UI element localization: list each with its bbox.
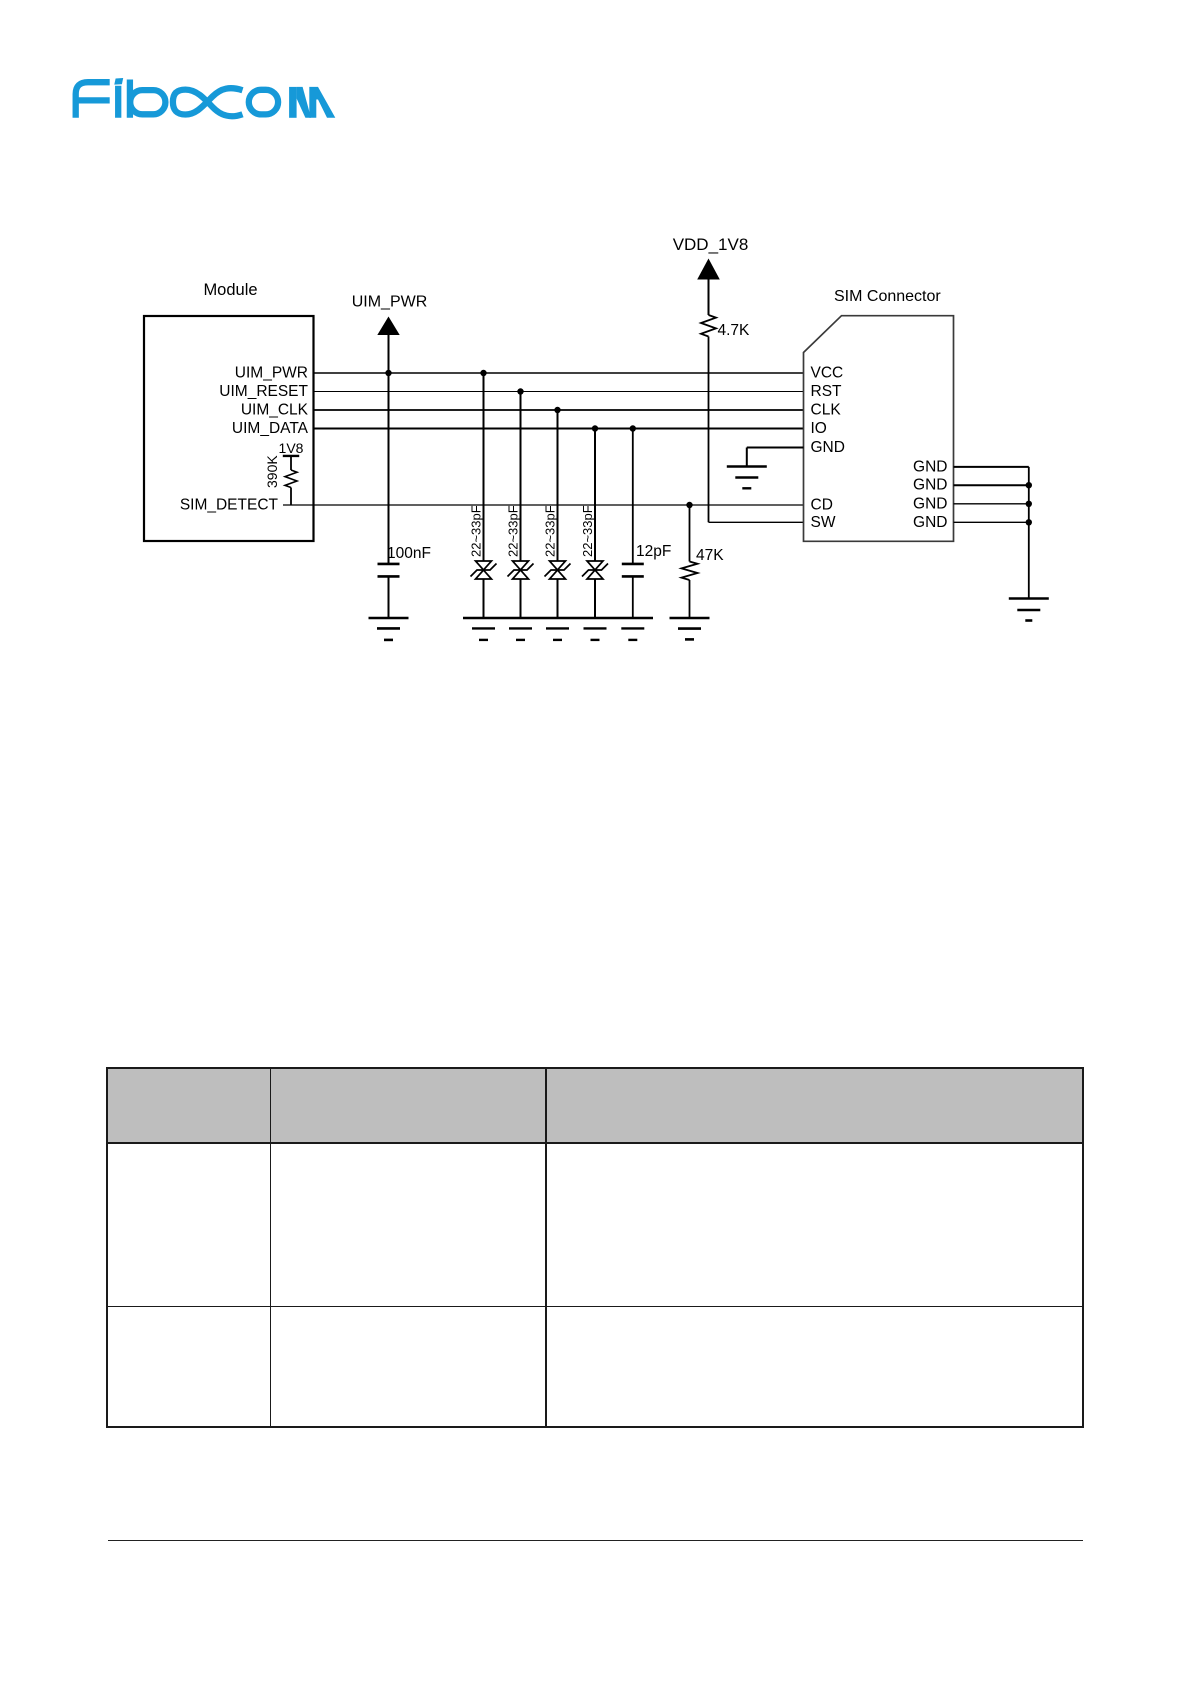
- node GND3 junction: [1026, 501, 1032, 507]
- ESD diode D1: [469, 370, 497, 618]
- svg-text:22~33pF: 22~33pF: [543, 505, 558, 557]
- table: [106, 1067, 1084, 1428]
- wire UIM_PWR vertical: [388, 335, 390, 564]
- ESD diode D4: [580, 425, 608, 618]
- wire GND3: [954, 503, 1029, 505]
- svg-text:4.7K: 4.7K: [718, 322, 751, 339]
- svg-text:VCC: VCC: [811, 365, 844, 382]
- svg-text:UIM_RESET: UIM_RESET: [219, 383, 308, 400]
- logo letter m: [289, 87, 297, 118]
- node GND2 junction: [1026, 482, 1032, 488]
- logo letter F: [76, 82, 110, 118]
- resistor R2 390K pull-up: [264, 440, 304, 505]
- svg-text:CLK: CLK: [811, 402, 842, 419]
- wire UIM_CLK: [314, 409, 804, 411]
- SIM connector box: [804, 316, 954, 542]
- svg-text:RST: RST: [811, 383, 843, 400]
- logo letter b: [127, 80, 133, 118]
- svg-text:GND: GND: [811, 439, 845, 456]
- logo letter o: [249, 90, 278, 115]
- ground G2: [472, 628, 644, 640]
- ground G3: [670, 618, 710, 639]
- svg-text:UIM_CLK: UIM_CLK: [241, 402, 309, 419]
- wire UIM_PWR: [314, 372, 804, 374]
- wire 4.7K to SW: [708, 337, 710, 523]
- resistor R1 47K: [682, 502, 725, 618]
- power arrow VDD_1V8: [697, 259, 720, 280]
- ESD diode D3: [543, 407, 571, 618]
- capacitor C2 12pF: [622, 425, 672, 618]
- svg-text:390K: 390K: [264, 455, 280, 488]
- svg-text:SW: SW: [811, 514, 836, 531]
- Fibocom logo: [0, 0, 400, 140]
- ground G5: [1009, 599, 1049, 621]
- capacitor C1 100nF: [378, 563, 400, 566]
- svg-text:SIM Connector: SIM Connector: [834, 288, 941, 305]
- wire C1 to ground: [388, 576, 390, 618]
- svg-text:22~33pF: 22~33pF: [469, 505, 484, 557]
- logo oc ligature: [173, 88, 243, 116]
- wire GND pin: [747, 447, 804, 449]
- node GND4 junction: [1026, 519, 1032, 525]
- svg-text:100nF: 100nF: [387, 545, 431, 562]
- wire SIM_DETECT to CD: [283, 504, 804, 506]
- wire GND1: [954, 466, 1029, 468]
- power arrow UIM_PWR: [377, 317, 399, 336]
- logo letter i: [115, 86, 121, 118]
- wire UIM_DATA: [314, 428, 804, 430]
- svg-text:GND: GND: [913, 495, 947, 512]
- logo i dot: [114, 78, 123, 85]
- ground G4: [727, 467, 767, 489]
- wire SW: [709, 521, 804, 523]
- svg-text:UIM_PWR: UIM_PWR: [235, 365, 308, 382]
- ground G1: [369, 618, 409, 640]
- svg-text:GND: GND: [913, 458, 947, 475]
- wire VDD vertical: [708, 280, 710, 316]
- node UIM_PWR junction: [385, 370, 391, 376]
- ground rail for ESD bank: [463, 617, 653, 620]
- wire GND2: [954, 484, 1029, 486]
- svg-text:VDD_1V8: VDD_1V8: [673, 235, 749, 254]
- svg-text:22~33pF: 22~33pF: [580, 505, 595, 557]
- wire GND4: [954, 521, 1029, 523]
- svg-text:Module: Module: [203, 281, 257, 299]
- wire GND vertical: [1028, 467, 1030, 599]
- svg-text:1V8: 1V8: [279, 440, 304, 456]
- svg-text:GND: GND: [913, 477, 947, 494]
- wire UIM_RESET: [314, 391, 804, 393]
- footer rule: [108, 1540, 1083, 1542]
- svg-text:22~33pF: 22~33pF: [506, 505, 521, 557]
- svg-text:UIM_DATA: UIM_DATA: [232, 420, 309, 437]
- svg-text:CD: CD: [811, 497, 833, 514]
- svg-text:12pF: 12pF: [636, 543, 671, 560]
- ESD diode D2: [506, 388, 534, 618]
- resistor R3 4.7K: [701, 315, 716, 337]
- svg-text:UIM_PWR: UIM_PWR: [352, 294, 428, 311]
- svg-text:GND: GND: [913, 514, 947, 531]
- svg-text:47K: 47K: [696, 547, 724, 564]
- svg-text:SIM_DETECT: SIM_DETECT: [180, 497, 279, 514]
- module box: [144, 316, 314, 541]
- svg-text:IO: IO: [811, 420, 827, 437]
